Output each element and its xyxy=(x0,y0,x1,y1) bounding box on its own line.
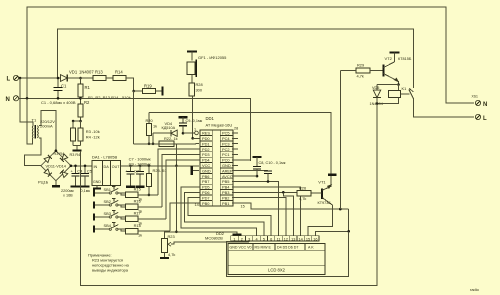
terminal N out xyxy=(475,100,480,105)
svg-text:1: 1 xyxy=(194,128,196,132)
svg-text:PD6: PD6 xyxy=(202,190,210,195)
wire backlight line y113 xyxy=(149,113,331,174)
wire PB2 to LCD pin12 xyxy=(232,198,286,236)
wire N input xyxy=(19,97,81,99)
svg-text:R20: R20 xyxy=(146,118,154,123)
svg-text:R14: R14 xyxy=(115,70,123,75)
wire to R19 xyxy=(134,90,143,92)
svg-text:выводы индикатора: выводы индикатора xyxy=(92,268,129,273)
svg-text:4: 4 xyxy=(255,237,257,241)
node R19 xyxy=(132,90,135,93)
wire R23 wiper to LCD pin3 xyxy=(171,242,249,244)
svg-text:R16: R16 xyxy=(134,199,141,204)
svg-text:N: N xyxy=(483,102,487,108)
node R3 R4 top xyxy=(79,120,82,123)
resistor R15 xyxy=(126,192,139,197)
bridge rectifier VD11-VD14 xyxy=(41,151,71,181)
wire emitter node xyxy=(377,84,399,86)
svg-text:AT Mega8-16U: AT Mega8-16U xyxy=(206,123,233,128)
svg-text:PB0: PB0 xyxy=(202,201,210,206)
wire PC3 stub xyxy=(232,143,238,145)
wire PD2 to buttons xyxy=(158,149,200,195)
svg-text:R3 R4: R3 R4 xyxy=(70,153,81,157)
wire K1 bottom xyxy=(377,98,399,104)
svg-text:15: 15 xyxy=(306,237,310,241)
svg-text:1k: 1k xyxy=(153,124,157,129)
svg-text:GND: GND xyxy=(93,180,101,184)
svg-text:R17: R17 xyxy=(134,211,141,216)
wire R14 to corner xyxy=(126,78,134,91)
wire pin16 loop right vertical xyxy=(348,209,350,231)
svg-text:AREF: AREF xyxy=(222,168,233,173)
svg-text:RES: RES xyxy=(202,131,210,136)
relay contact K1.1 xyxy=(409,89,414,98)
svg-text:PB2: PB2 xyxy=(222,195,229,200)
svg-text:1k: 1k xyxy=(138,233,142,238)
svg-text:0,1мк: 0,1мк xyxy=(81,189,91,193)
capacitor C9 big xyxy=(139,165,142,168)
resistor R22 xyxy=(159,141,174,146)
wire R19 to tap xyxy=(156,90,162,92)
svg-text:C1 - 0,68мк х 400В: C1 - 0,68мк х 400В xyxy=(41,100,76,105)
wire PC2 stub xyxy=(232,148,238,150)
wire PC1 stub xyxy=(232,154,238,156)
wire node to RES pin xyxy=(183,132,195,134)
wire GND right stub xyxy=(232,164,238,166)
resistor R19 xyxy=(143,88,156,93)
wire N to primary bottom xyxy=(27,98,32,144)
wire PD6 to LCD pin5 xyxy=(185,192,264,236)
svg-text:R2: R2 xyxy=(84,100,90,105)
capacitor C7 xyxy=(129,165,132,168)
junction N down xyxy=(26,97,29,100)
wire R20 bottom to line xyxy=(148,136,150,144)
diode VD12 xyxy=(60,154,68,162)
ground R3R4 xyxy=(73,149,82,151)
svg-text:КТ815Б: КТ815Б xyxy=(398,57,412,61)
svg-text:VT1: VT1 xyxy=(318,179,326,184)
node reset xyxy=(182,132,185,135)
capacitor C5 xyxy=(84,166,86,173)
wire bridge plus to DA1 xyxy=(71,165,92,167)
wire PB4 to LCD pin14 xyxy=(232,187,301,236)
resistor R25 xyxy=(148,165,151,168)
svg-text:GND: GND xyxy=(202,168,211,173)
wire DA1 out rail 5V xyxy=(121,165,194,167)
svg-text:1N4007: 1N4007 xyxy=(79,70,94,75)
tap bar +12V for GF1 xyxy=(187,50,197,52)
resistor R14 xyxy=(113,75,126,80)
resistor R20 xyxy=(146,124,151,136)
svg-text:VD11-VD14: VD11-VD14 xyxy=(46,164,67,169)
svg-text:PD2: PD2 xyxy=(202,147,210,152)
wire R23 bottom gnd xyxy=(164,252,166,257)
svg-text:PB7: PB7 xyxy=(202,179,209,184)
wire cap to res node xyxy=(182,126,184,134)
svg-text:R26: R26 xyxy=(299,186,306,191)
svg-text:16: 16 xyxy=(313,237,317,241)
resistor R18 xyxy=(126,228,139,233)
svg-text:C7: C7 xyxy=(134,170,139,174)
wire PD7 to LCD pin6 xyxy=(188,198,271,236)
svg-text:1: 1 xyxy=(233,237,235,241)
wire PD5 to LCD pin4 xyxy=(181,187,257,236)
wire R22 right to 5V rail xyxy=(174,144,176,166)
terminal L out xyxy=(475,114,480,119)
svg-text:PD3: PD3 xyxy=(202,152,210,157)
svg-text:R3 R4: R3 R4 xyxy=(54,152,65,156)
svg-text:4,7k: 4,7k xyxy=(299,196,306,201)
svg-text:PC0: PC0 xyxy=(222,158,230,163)
svg-text:PD0: PD0 xyxy=(202,136,210,141)
tap bar LCD vcc xyxy=(233,233,242,235)
svg-text:5: 5 xyxy=(263,237,265,241)
resistor R4 xyxy=(78,128,83,141)
wire R29 to VT2 base xyxy=(370,70,384,72)
svg-text:2: 2 xyxy=(241,237,243,241)
svg-text:GND: GND xyxy=(222,163,231,168)
svg-text:LCD 8X2: LCD 8X2 xyxy=(268,268,286,273)
svg-text:13: 13 xyxy=(291,237,295,241)
svg-text:OUT: OUT xyxy=(112,165,120,169)
wire R22 line xyxy=(134,143,159,145)
svg-text:DA: DA xyxy=(104,165,110,169)
wire R14 node down xyxy=(133,91,135,144)
diode VD4 xyxy=(153,132,176,134)
pin 1 RES bubble xyxy=(195,131,199,135)
wire PC5 stub xyxy=(232,132,238,134)
svg-text:SB4: SB4 xyxy=(104,223,112,228)
wire PD4 to buttons xyxy=(166,160,200,219)
resistor R13 xyxy=(93,75,106,80)
svg-text:28: 28 xyxy=(234,127,238,131)
svg-text:R3 -10k: R3 -10k xyxy=(86,129,100,134)
wire R28 down to PD0 xyxy=(192,96,194,138)
svg-text:DD1: DD1 xyxy=(206,116,215,121)
svg-text:14: 14 xyxy=(299,237,303,241)
tap bar +12 VT2 xyxy=(389,51,399,53)
wire PB5 to LCD pin11 xyxy=(232,182,279,236)
wire PC0 stub xyxy=(232,159,238,161)
buzzer GF1 xyxy=(187,62,195,75)
svg-text:C8, C10 - 0,1мк: C8, C10 - 0,1мк xyxy=(259,161,286,165)
svg-text:R22- 1k: R22- 1k xyxy=(164,136,178,141)
wire DA1 gnd xyxy=(96,185,98,188)
svg-text:12: 12 xyxy=(284,237,288,241)
LCD body xyxy=(228,244,325,275)
resistor R1 xyxy=(80,78,82,84)
svg-text:КД510А: КД510А xyxy=(162,126,176,130)
tap bar +5V reset xyxy=(179,116,188,118)
svg-text:15: 15 xyxy=(241,204,245,208)
transistor VT1 xyxy=(321,189,323,199)
svg-text:PB5: PB5 xyxy=(222,179,229,184)
wire PB1 to relay line xyxy=(232,203,349,209)
diode VD5 xyxy=(376,85,378,91)
svg-text:R25- 51: R25- 51 xyxy=(153,168,168,173)
svg-text:R4 -12k: R4 -12k xyxy=(86,135,100,140)
wire bridge bottom to gnd xyxy=(55,181,57,186)
capacitor C4 xyxy=(75,166,77,173)
button SB3 xyxy=(93,214,95,221)
svg-text:х 16В: х 16В xyxy=(63,193,73,197)
svg-text:SB3: SB3 xyxy=(104,211,111,216)
tap bar +5 AREF xyxy=(253,156,262,158)
wire PC4 stub xyxy=(232,137,238,139)
svg-text:PB3: PB3 xyxy=(222,190,229,195)
svg-text:PC2: PC2 xyxy=(222,147,230,152)
svg-text:PD5: PD5 xyxy=(202,185,210,190)
wire PD3 to buttons xyxy=(162,155,200,207)
resistor R2 xyxy=(78,104,83,117)
svg-text:VT2: VT2 xyxy=(385,56,393,61)
svg-text:VD5: VD5 xyxy=(372,86,379,90)
svg-text:VCC: VCC xyxy=(202,163,210,168)
wire relay control from DD1 xyxy=(339,71,341,210)
svg-text:200mA: 200mA xyxy=(40,124,53,129)
capacitor C10 xyxy=(264,170,272,172)
svg-text:PC3: PC3 xyxy=(222,141,230,146)
svg-text:A K: A K xyxy=(308,246,314,250)
wire R13-R14 xyxy=(106,77,113,79)
wire to R13 xyxy=(68,77,93,79)
regulator DA1 L7805 xyxy=(92,160,121,185)
wire R25 down xyxy=(148,186,150,195)
svg-text:AVCC: AVCC xyxy=(222,174,233,179)
diode VD11 xyxy=(44,155,52,163)
svg-text:SB1: SB1 xyxy=(104,187,111,192)
wire LCD pin16 gnd loop xyxy=(315,231,348,236)
capacitor C8 xyxy=(256,157,258,166)
wire sense to PC0 xyxy=(238,159,251,161)
resistor R17 xyxy=(126,216,139,221)
wire secondary top to bridge xyxy=(39,111,56,151)
resistor R26 xyxy=(297,191,311,196)
wire AVCC xyxy=(232,175,257,177)
junction L down xyxy=(19,77,22,80)
wire L loop (second frame) xyxy=(58,29,414,88)
svg-text:DA1 - L7805B: DA1 - L7805B xyxy=(92,155,117,160)
wire VCC pin to 5V rail xyxy=(121,165,200,167)
svg-text:R1, R2, R13,R14 - 510k: R1, R2, R13,R14 - 510k xyxy=(88,95,131,100)
svg-text:D4 D5 D6 D7: D4 D5 D6 D7 xyxy=(277,246,298,250)
wire AREF to C10 xyxy=(232,170,268,172)
resistor R29 xyxy=(356,68,370,73)
wire R23 top xyxy=(165,232,177,239)
svg-text:R1: R1 xyxy=(85,85,91,90)
button SB4 xyxy=(93,226,95,233)
svg-text:R13: R13 xyxy=(95,70,103,75)
svg-text:11: 11 xyxy=(277,237,281,241)
svg-text:R19: R19 xyxy=(144,84,152,89)
svg-text:R23: R23 xyxy=(168,234,175,239)
svg-text:PD7: PD7 xyxy=(202,195,210,200)
transistor VT2 xyxy=(383,65,385,77)
svg-text:XS1: XS1 xyxy=(472,95,479,99)
svg-text:GF1 - ИФ12055: GF1 - ИФ12055 xyxy=(198,55,227,60)
svg-text:PD4: PD4 xyxy=(202,158,210,163)
svg-text:GND VCC V0: GND VCC V0 xyxy=(230,246,252,250)
wire L to primary top xyxy=(20,78,33,126)
wire GND pin tap xyxy=(193,170,199,172)
svg-text:PB6: PB6 xyxy=(202,174,209,179)
resistor R16 xyxy=(126,204,139,209)
wire relay contact to output L xyxy=(413,99,474,118)
svg-text:VD1: VD1 xyxy=(69,70,78,75)
wire PB0 to buttons xyxy=(170,203,200,231)
resistor R3 xyxy=(71,128,76,141)
tap bar +5 VT1 xyxy=(328,174,337,176)
wire PB3 to R26 and LCD pin13 xyxy=(232,191,297,193)
svg-text:300: 300 xyxy=(196,88,203,93)
diode VD13 xyxy=(44,169,52,177)
wire R1-R2 junction xyxy=(80,97,82,104)
svg-text:SB2: SB2 xyxy=(104,199,111,204)
svg-text:R28: R28 xyxy=(196,82,203,87)
svg-text:C5: C5 xyxy=(87,169,92,174)
node R1 top xyxy=(79,77,82,80)
svg-text:PC5: PC5 xyxy=(222,131,230,136)
diode VD14 xyxy=(60,170,68,178)
svg-text:R15: R15 xyxy=(134,187,141,192)
relay K1 coil xyxy=(398,85,400,91)
wire sense line to DD1 area xyxy=(81,98,251,161)
svg-text:K1: K1 xyxy=(402,86,407,91)
wire VT1 base R26 xyxy=(311,192,322,194)
lcd divider xyxy=(228,264,325,266)
svg-text:PC1: PC1 xyxy=(222,152,230,157)
svg-text:L: L xyxy=(483,116,487,122)
svg-text:C1: C1 xyxy=(61,84,67,89)
wire R20 top xyxy=(148,113,150,124)
svg-text:РЦ1Б: РЦ1Б xyxy=(38,179,49,184)
wire VD4 left down xyxy=(152,133,154,144)
capacitor C9 reset xyxy=(179,122,187,124)
node VT2 emitter xyxy=(397,83,400,86)
tap bar at R19 xyxy=(161,87,163,96)
wire L input xyxy=(19,77,61,79)
svg-text:4,7k: 4,7k xyxy=(357,74,364,79)
potentiometer R23 xyxy=(162,238,168,252)
svg-text:PD1: PD1 xyxy=(202,141,210,146)
wire +5 down to R23 and LCD VCC xyxy=(175,166,177,232)
svg-text:PB4: PB4 xyxy=(222,185,230,190)
svg-text:R18: R18 xyxy=(134,223,141,228)
svg-text:radio: radio xyxy=(470,287,480,292)
wire VD5/K1 return down xyxy=(80,104,377,286)
resistor R28 xyxy=(189,83,194,96)
svg-text:IN: IN xyxy=(94,165,98,169)
svg-text:КТ973Б: КТ973Б xyxy=(318,201,332,205)
svg-text:RS R/W E: RS R/W E xyxy=(255,246,272,250)
svg-text:6: 6 xyxy=(270,237,272,241)
wire N loop (top frame) xyxy=(27,7,474,103)
wire R3R4 bottom xyxy=(72,141,74,145)
svg-text:C9- 0,1мк: C9- 0,1мк xyxy=(186,119,203,123)
wire VT1 collector to LCD pin15 xyxy=(308,207,333,236)
button SB2 xyxy=(93,202,95,209)
svg-text:R29: R29 xyxy=(357,63,364,68)
svg-text:3: 3 xyxy=(248,237,250,241)
wire R2 to R3R4 xyxy=(80,117,82,121)
diode VD1 xyxy=(61,75,68,82)
wire PD1 from divider xyxy=(134,143,196,145)
svg-text:PC4: PC4 xyxy=(222,136,230,141)
wire PD0 xyxy=(193,137,200,139)
capacitor C1 xyxy=(57,78,59,87)
svg-text:PB1: PB1 xyxy=(222,201,229,206)
svg-text:N: N xyxy=(6,97,10,103)
svg-text:4,7k: 4,7k xyxy=(168,252,175,257)
svg-text:L: L xyxy=(7,77,11,83)
button SB1 xyxy=(93,190,95,197)
IC DD1 ATmega8 xyxy=(200,130,233,206)
svg-text:MC0802B: MC0802B xyxy=(205,235,223,240)
wire secondary bottom to bridge xyxy=(25,138,42,166)
wire GF1 to R28 xyxy=(191,75,193,83)
